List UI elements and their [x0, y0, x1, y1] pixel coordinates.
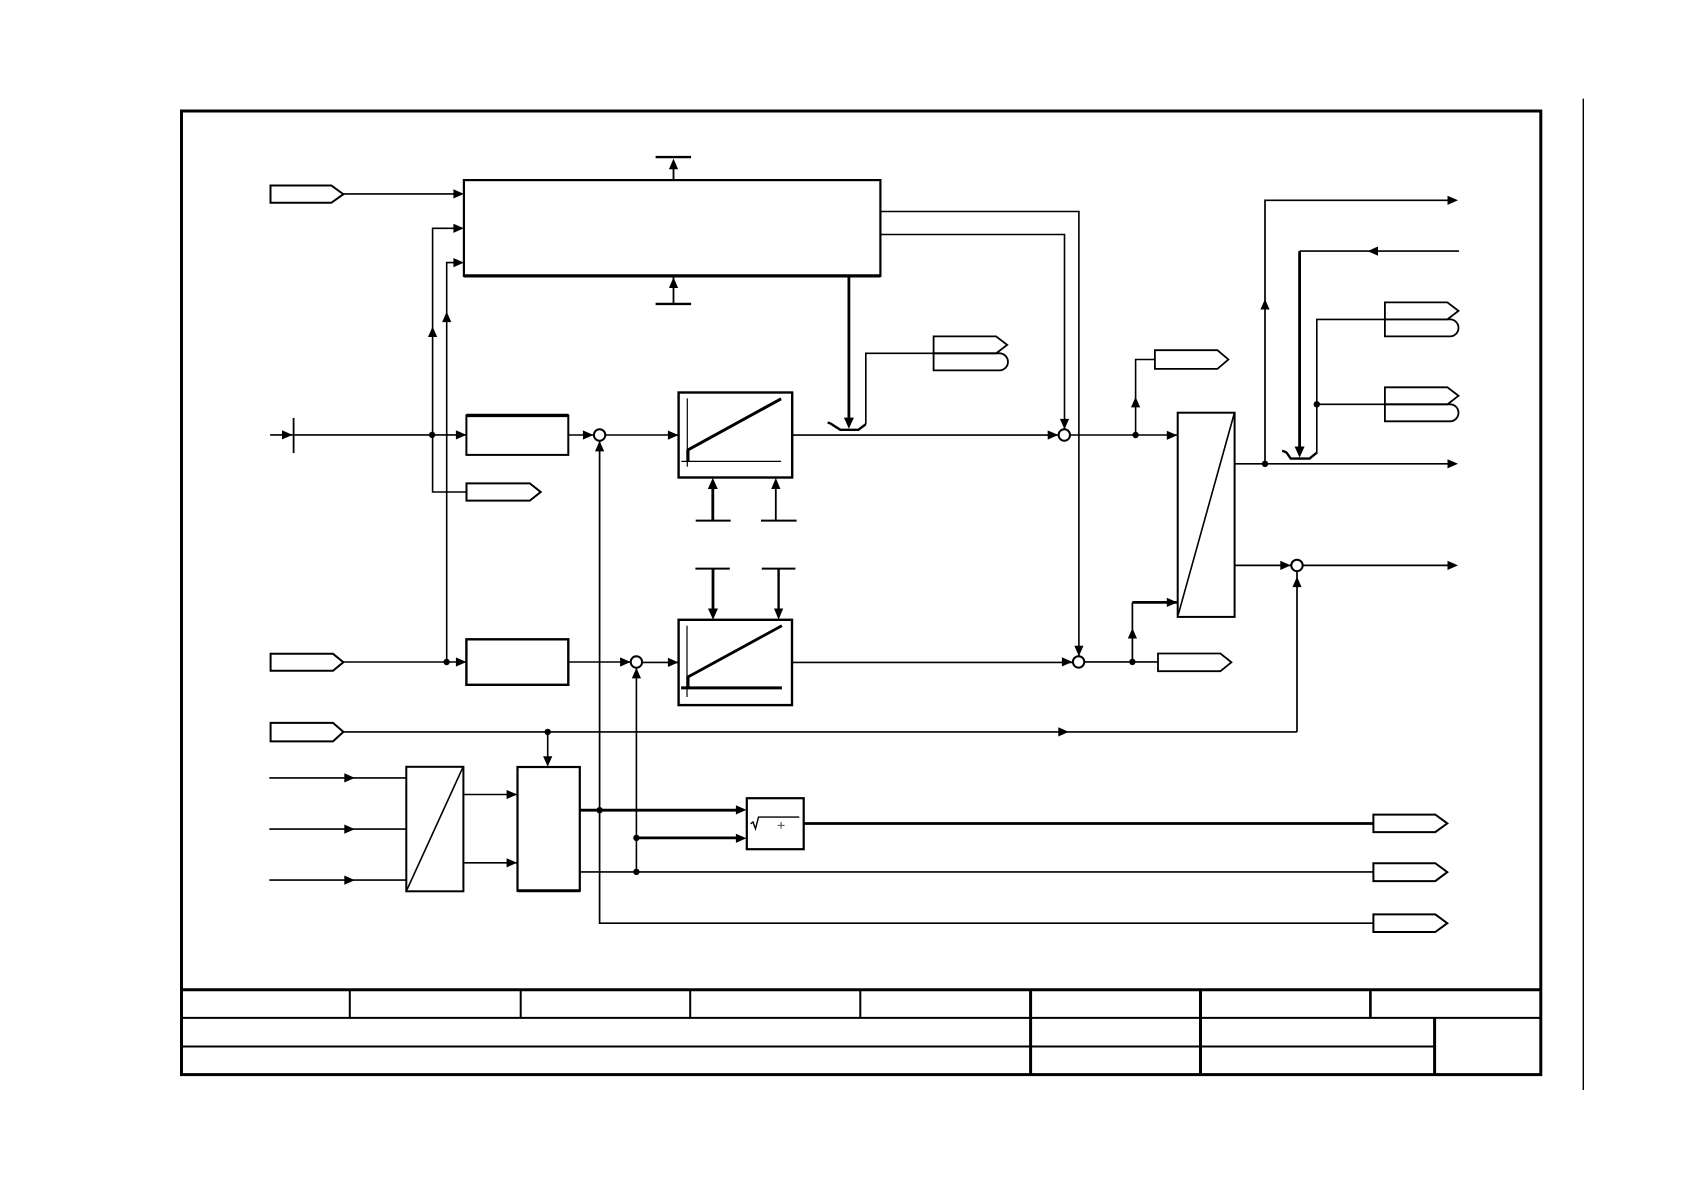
phase input wire 3: [269, 879, 406, 881]
arrow into S2 from above: [1060, 419, 1069, 430]
title block column g: [1369, 990, 1372, 1018]
title block column a: [349, 990, 351, 1018]
block B5: [466, 639, 568, 685]
block B1 bottom edge: [464, 274, 881, 277]
sheet edge line: [1582, 99, 1584, 1090]
arrow into S2: [1048, 430, 1059, 439]
wire X4 to B5: [343, 661, 466, 663]
wire to connector B: [1317, 403, 1385, 405]
main wire W1: [270, 434, 466, 436]
connector flag X6: [271, 723, 344, 742]
riser wire to top output: [1265, 200, 1450, 464]
B3 characteristic ramp: [688, 399, 781, 450]
summing junction S2: [1059, 429, 1070, 440]
wire S1 to B3: [605, 434, 678, 436]
wire B8 out 1: [463, 794, 517, 796]
junction dot riser X3: [1132, 432, 1138, 438]
wire B8 out 2: [463, 862, 517, 864]
arrow into S1: [583, 430, 594, 439]
double connector C upper: [934, 336, 1008, 353]
ramp block B3: [679, 393, 793, 478]
B6 y-axis: [686, 626, 688, 697]
junction dot B7 feed: [545, 729, 551, 735]
title block column f: [1199, 990, 1202, 1075]
arrow into funnel F2: [1295, 447, 1305, 458]
wire B7 output 1 to B9: [580, 809, 738, 812]
arrow on riser S4: [1292, 577, 1301, 588]
wire B6 to S3: [792, 661, 1072, 663]
feed wire V1 to B1 input 2: [433, 228, 455, 435]
arrow on X6 wire: [1058, 727, 1069, 736]
title block row divider 1: [180, 1017, 1541, 1019]
feed wire to B7 top: [547, 732, 549, 757]
title block column b: [520, 990, 522, 1018]
wire B1 output 1 to S3: [880, 212, 1079, 657]
B9 radical sign: [751, 817, 800, 829]
wire S5 to B6: [642, 661, 678, 663]
riser wire y733 to S4: [1296, 571, 1298, 732]
B4 diagonal: [1178, 414, 1234, 615]
block B2: [466, 415, 568, 455]
arrow into B4 input 1: [1167, 431, 1178, 440]
arrow out right y565: [1448, 561, 1459, 570]
ramp block B6: [679, 620, 792, 705]
title block row divider 2: [180, 1046, 1435, 1048]
junction dot connector B branch: [1314, 401, 1320, 407]
wire to B9 input 2: [636, 837, 737, 840]
arrow out right y200: [1448, 196, 1459, 205]
arrow on phase wire 3: [344, 876, 355, 885]
B6 characteristic step: [686, 677, 689, 689]
arrow into B2: [456, 430, 467, 439]
stub wire V1 to flag X2: [433, 435, 467, 492]
B6 parameter bar right: [762, 569, 796, 620]
wire B4 output 1: [1235, 463, 1450, 465]
B3 y-axis: [686, 398, 688, 466]
wire B5 to S5: [568, 661, 630, 663]
arrow into B6: [668, 658, 679, 667]
parameter bar P1 above B1: [656, 157, 692, 180]
B3 x-axis: [681, 460, 781, 462]
arrow into funnel F1: [844, 418, 854, 429]
riser wire to B4 input 2: [1131, 602, 1133, 662]
wire S5 drop: [635, 668, 637, 872]
summing junction S4: [1291, 560, 1302, 571]
B3 characteristic step: [686, 450, 689, 462]
arrow into B7 input 1: [507, 790, 517, 799]
title block top rule: [180, 988, 1541, 991]
title block column d: [859, 990, 861, 1018]
arrow into S1 from below: [595, 441, 604, 452]
output flag O2: [1373, 863, 1447, 881]
wire S2 to B4: [1070, 434, 1177, 436]
arrow on W1 at tick: [282, 430, 293, 439]
connector flag X3: [1155, 350, 1229, 369]
wire riser to B4 input 2: [1132, 601, 1177, 604]
B3 parameter bar left: [696, 478, 731, 521]
arrow into S4: [1280, 561, 1291, 570]
junction dot S1 drop: [596, 807, 602, 813]
wire B7 output 2 to flag O2: [580, 871, 1374, 873]
wire B9 output to flag O1: [804, 822, 1374, 825]
arrow on riser X3: [1131, 397, 1140, 408]
wire S3 to flag X5: [1084, 661, 1158, 663]
converter block B8: [406, 767, 463, 892]
wire B3 to S2: [792, 434, 1058, 436]
arrow into B3: [668, 431, 679, 440]
output flag O3: [1373, 914, 1447, 932]
drawing frame: [182, 111, 1541, 1075]
junction dot W1/V1: [429, 432, 435, 438]
arrow into S5: [620, 657, 631, 666]
wire B1 output 2 to S2: [880, 235, 1064, 430]
B3 parameter bar right: [761, 478, 797, 521]
arrow into B9 input 1: [736, 805, 747, 814]
block B2 top edge: [466, 414, 568, 417]
double connector A lower: [1385, 319, 1459, 336]
output flag O1: [1373, 815, 1447, 833]
phase input wire 1: [269, 777, 406, 779]
arrow into B5: [456, 657, 467, 666]
junction dot B9 input 2: [633, 835, 639, 841]
phase input wire 2: [269, 828, 406, 830]
block B7 bottom edge: [518, 889, 580, 892]
arrow into B7 input 2: [507, 858, 517, 867]
scaling block B4: [1178, 413, 1235, 617]
parameter bar P2 below B1: [656, 276, 692, 304]
title block column h: [1433, 1018, 1436, 1075]
wire X6 to S4 riser: [343, 731, 1297, 733]
return drop wire to funnel F2: [1298, 251, 1301, 448]
arrow into B1 input 3: [453, 258, 464, 267]
wire S4 to right output: [1303, 564, 1450, 566]
summing junction S1: [594, 429, 605, 440]
B9 plus sign: [778, 822, 785, 829]
arrow into B1 input 2: [453, 224, 464, 233]
drop wire S1 to bottom rail: [600, 441, 1374, 924]
funnel F1: [828, 423, 866, 430]
arrow into S3 from above: [1074, 646, 1083, 657]
arrow into S5 from below: [632, 668, 641, 679]
double connector B lower: [1385, 404, 1459, 421]
arrow into B4 input 2: [1167, 598, 1178, 607]
wire X1 to B1: [343, 193, 455, 195]
arrow on return wire: [1368, 247, 1379, 256]
wire B4 output 2 to S4: [1235, 564, 1291, 566]
arrow on phase wire 2: [344, 825, 355, 834]
junction dot V2: [443, 659, 449, 665]
block B7: [518, 767, 580, 891]
arrow on riser B4: [1128, 628, 1137, 639]
riser wire to flag X3: [1136, 360, 1155, 436]
junction dot B4 input riser: [1129, 659, 1135, 665]
arrow on riser top: [1260, 299, 1269, 310]
arrow into B9 input 2: [736, 834, 747, 843]
funnel F2: [1282, 451, 1317, 459]
double connector C lower: [934, 353, 1008, 370]
double connector A upper: [1385, 302, 1459, 319]
double connector B upper: [1385, 387, 1459, 404]
arrow on V1: [428, 327, 437, 338]
junction dot riser top output: [1262, 461, 1268, 467]
wire B2 to S1: [568, 434, 593, 436]
arrow into B7 top: [543, 756, 552, 767]
drop wire B1 bottom to funnel F1: [848, 276, 851, 419]
rms block B9: [747, 798, 804, 849]
summing junction S5: [631, 656, 642, 667]
summing junction S3: [1073, 656, 1084, 667]
title block column e: [1029, 990, 1032, 1075]
arrow on phase wire 1: [344, 773, 355, 782]
B6 characteristic ramp: [688, 626, 782, 677]
title block column c: [689, 990, 691, 1018]
junction dot B7 output 2: [633, 869, 639, 875]
B6 x-axis: [681, 686, 782, 689]
B8 diagonal: [407, 767, 463, 889]
arrow out right y463: [1448, 459, 1459, 468]
wire funnel F2 to connector A: [1317, 319, 1385, 452]
B6 parameter bar left: [695, 569, 729, 620]
return wire from right: [1300, 250, 1460, 252]
connector flag X1: [271, 186, 344, 203]
feed wire V2 to B1 input 3: [447, 263, 455, 662]
arrow into B1 input 1: [453, 189, 464, 198]
arrow into S3: [1062, 657, 1073, 666]
connector flag X5: [1158, 654, 1231, 672]
arrow on V2: [442, 312, 451, 323]
connector flag X2: [467, 483, 541, 500]
wire funnel F1 to connector C: [866, 353, 934, 424]
block B1: [464, 180, 881, 276]
start tick on W1: [293, 418, 295, 453]
connector flag X4: [271, 654, 344, 671]
